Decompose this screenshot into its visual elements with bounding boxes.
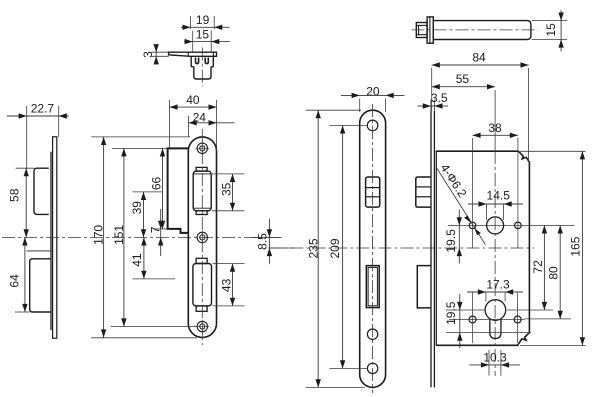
view C bent lip edge xyxy=(50,152,52,330)
view C lip cut edge xyxy=(27,250,51,252)
svg-text:20: 20 xyxy=(366,84,380,98)
view F lock case outline xyxy=(436,151,530,345)
view F fixing hole lower-right xyxy=(514,316,521,323)
dim 15 (view A) xyxy=(184,41,193,43)
svg-text:165: 165 xyxy=(569,236,583,256)
svg-text:84: 84 xyxy=(472,50,486,64)
svg-text:22.7: 22.7 xyxy=(31,102,55,116)
view F lower hole cross lines xyxy=(466,319,525,321)
view F fixing hole lower-left xyxy=(469,316,476,323)
svg-text:170: 170 xyxy=(92,225,106,245)
dim 151 (view D) xyxy=(123,148,125,326)
view A box upper walls xyxy=(190,56,192,67)
dim 40 (view D) xyxy=(170,106,217,108)
view D: strike plate outline xyxy=(188,137,216,338)
dim 165 (view F) xyxy=(581,151,583,345)
svg-text:64: 64 xyxy=(8,274,22,288)
view E deadbolt opening xyxy=(366,266,379,308)
view E screw hole bottom xyxy=(367,363,377,373)
svg-text:39: 39 xyxy=(130,201,144,215)
svg-text:41: 41 xyxy=(130,253,144,267)
dim 19.5 upper (view F) xyxy=(458,210,460,226)
svg-text:19.5: 19.5 xyxy=(444,301,458,325)
view B flange plate xyxy=(427,17,433,43)
dim 43 (view D) xyxy=(232,264,234,306)
svg-text:40: 40 xyxy=(186,93,200,107)
view D latch cutout xyxy=(193,171,211,211)
view F hole center verticals xyxy=(472,138,474,248)
svg-text:10.3: 10.3 xyxy=(483,350,507,364)
dim 20 (view E) xyxy=(341,94,360,96)
centerline E/F xyxy=(268,247,534,249)
dim 209 (view E) xyxy=(342,125,344,368)
view D bent lip outline xyxy=(168,148,189,233)
svg-text:15: 15 xyxy=(544,23,558,37)
view B centerline xyxy=(412,29,539,31)
svg-text:19: 19 xyxy=(196,13,210,27)
view E latch opening xyxy=(366,177,380,207)
view A: strike-box top view outline xyxy=(169,52,217,56)
view C: strike plate edge xyxy=(53,137,57,338)
view D centerline xyxy=(201,129,203,345)
view C upper dust box xyxy=(34,168,49,214)
dim 7 (view D) xyxy=(160,209,162,229)
view D deadbolt cutout xyxy=(193,264,212,306)
dim 38 (view F) xyxy=(473,134,518,136)
dim 39 (view D) xyxy=(143,192,145,238)
svg-text:72: 72 xyxy=(531,260,545,274)
svg-text:19.5: 19.5 xyxy=(444,229,458,253)
view D screw hole bottom xyxy=(197,321,207,331)
view F: faceplate edge strip xyxy=(430,111,432,388)
dim 3.5 (view F) xyxy=(418,105,431,107)
dim 58 (view C) xyxy=(25,168,27,237)
dim 22.7 (view C) xyxy=(7,115,27,117)
svg-text:55: 55 xyxy=(456,72,470,86)
view F case left edge xyxy=(435,151,437,345)
dim 72 (view F) xyxy=(543,225,545,310)
dim 3 (view A) xyxy=(155,44,157,52)
view F hole center line horizontal xyxy=(452,224,575,226)
dim 66 (view D) xyxy=(162,148,164,229)
view B latch head xyxy=(416,23,427,38)
view F spindle hub hole xyxy=(487,217,504,234)
label 4-phi6.2 leader xyxy=(437,169,485,245)
svg-text:3: 3 xyxy=(141,51,155,58)
svg-text:24: 24 xyxy=(193,111,207,125)
view F euro cylinder hole xyxy=(485,300,506,321)
view A box cup xyxy=(194,67,211,79)
svg-text:7: 7 xyxy=(149,226,163,233)
dim 41 (view D) xyxy=(143,237,145,279)
svg-text:151: 151 xyxy=(112,225,126,245)
svg-text:66: 66 xyxy=(150,177,164,191)
view F latch bolt xyxy=(416,177,431,207)
view A prong slots xyxy=(196,58,199,64)
view D screw hole top xyxy=(197,143,207,153)
view F spindle vertical extension xyxy=(494,90,496,151)
dim 64 (view C) xyxy=(24,237,26,312)
dim 235 (view E) xyxy=(317,110,319,387)
view E: faceplate outline xyxy=(360,110,386,387)
svg-text:35: 35 xyxy=(219,182,233,196)
svg-text:14.5: 14.5 xyxy=(487,189,511,203)
svg-text:8.5: 8.5 xyxy=(255,233,269,250)
dim 170 (view D) xyxy=(103,137,105,338)
view D screw hole middle xyxy=(197,232,207,242)
dim 19 (view A) xyxy=(181,26,191,28)
centerline C/D xyxy=(2,236,282,238)
view E cylinder screw hole xyxy=(367,329,377,339)
dim 17.3 (view F) xyxy=(467,291,486,293)
svg-text:3.5: 3.5 xyxy=(431,91,448,105)
view C lower dust box xyxy=(30,259,51,312)
view E centerline xyxy=(372,104,374,393)
dim 19.5 lower (view F) xyxy=(459,294,461,310)
view B: latch bolt body xyxy=(433,21,531,40)
svg-text:43: 43 xyxy=(219,278,233,292)
svg-text:17.3: 17.3 xyxy=(486,277,510,291)
view A centerline xyxy=(201,48,203,87)
view E screw hole top xyxy=(367,120,378,131)
dim 8.5 xyxy=(252,236,282,238)
dim 80 (view F) xyxy=(559,225,561,319)
svg-text:80: 80 xyxy=(547,266,561,280)
dim 84 (view F) xyxy=(432,64,529,66)
dim 55 (view F) xyxy=(432,86,495,88)
view F fixing hole upper-left xyxy=(469,222,476,229)
view A plate ticks xyxy=(187,52,189,56)
svg-text:58: 58 xyxy=(8,188,22,202)
view F fixing hole upper-right xyxy=(515,222,522,229)
dim 15 (view B) xyxy=(560,10,562,21)
dim 35 (view D) xyxy=(232,174,234,211)
view F deadbolt xyxy=(417,266,431,308)
dim 24 (view D) xyxy=(189,122,217,124)
dim 14.5 (view F) xyxy=(468,203,487,205)
svg-text:15: 15 xyxy=(196,28,210,42)
svg-text:38: 38 xyxy=(488,121,502,135)
dim 10.3 (view F) xyxy=(469,364,489,366)
